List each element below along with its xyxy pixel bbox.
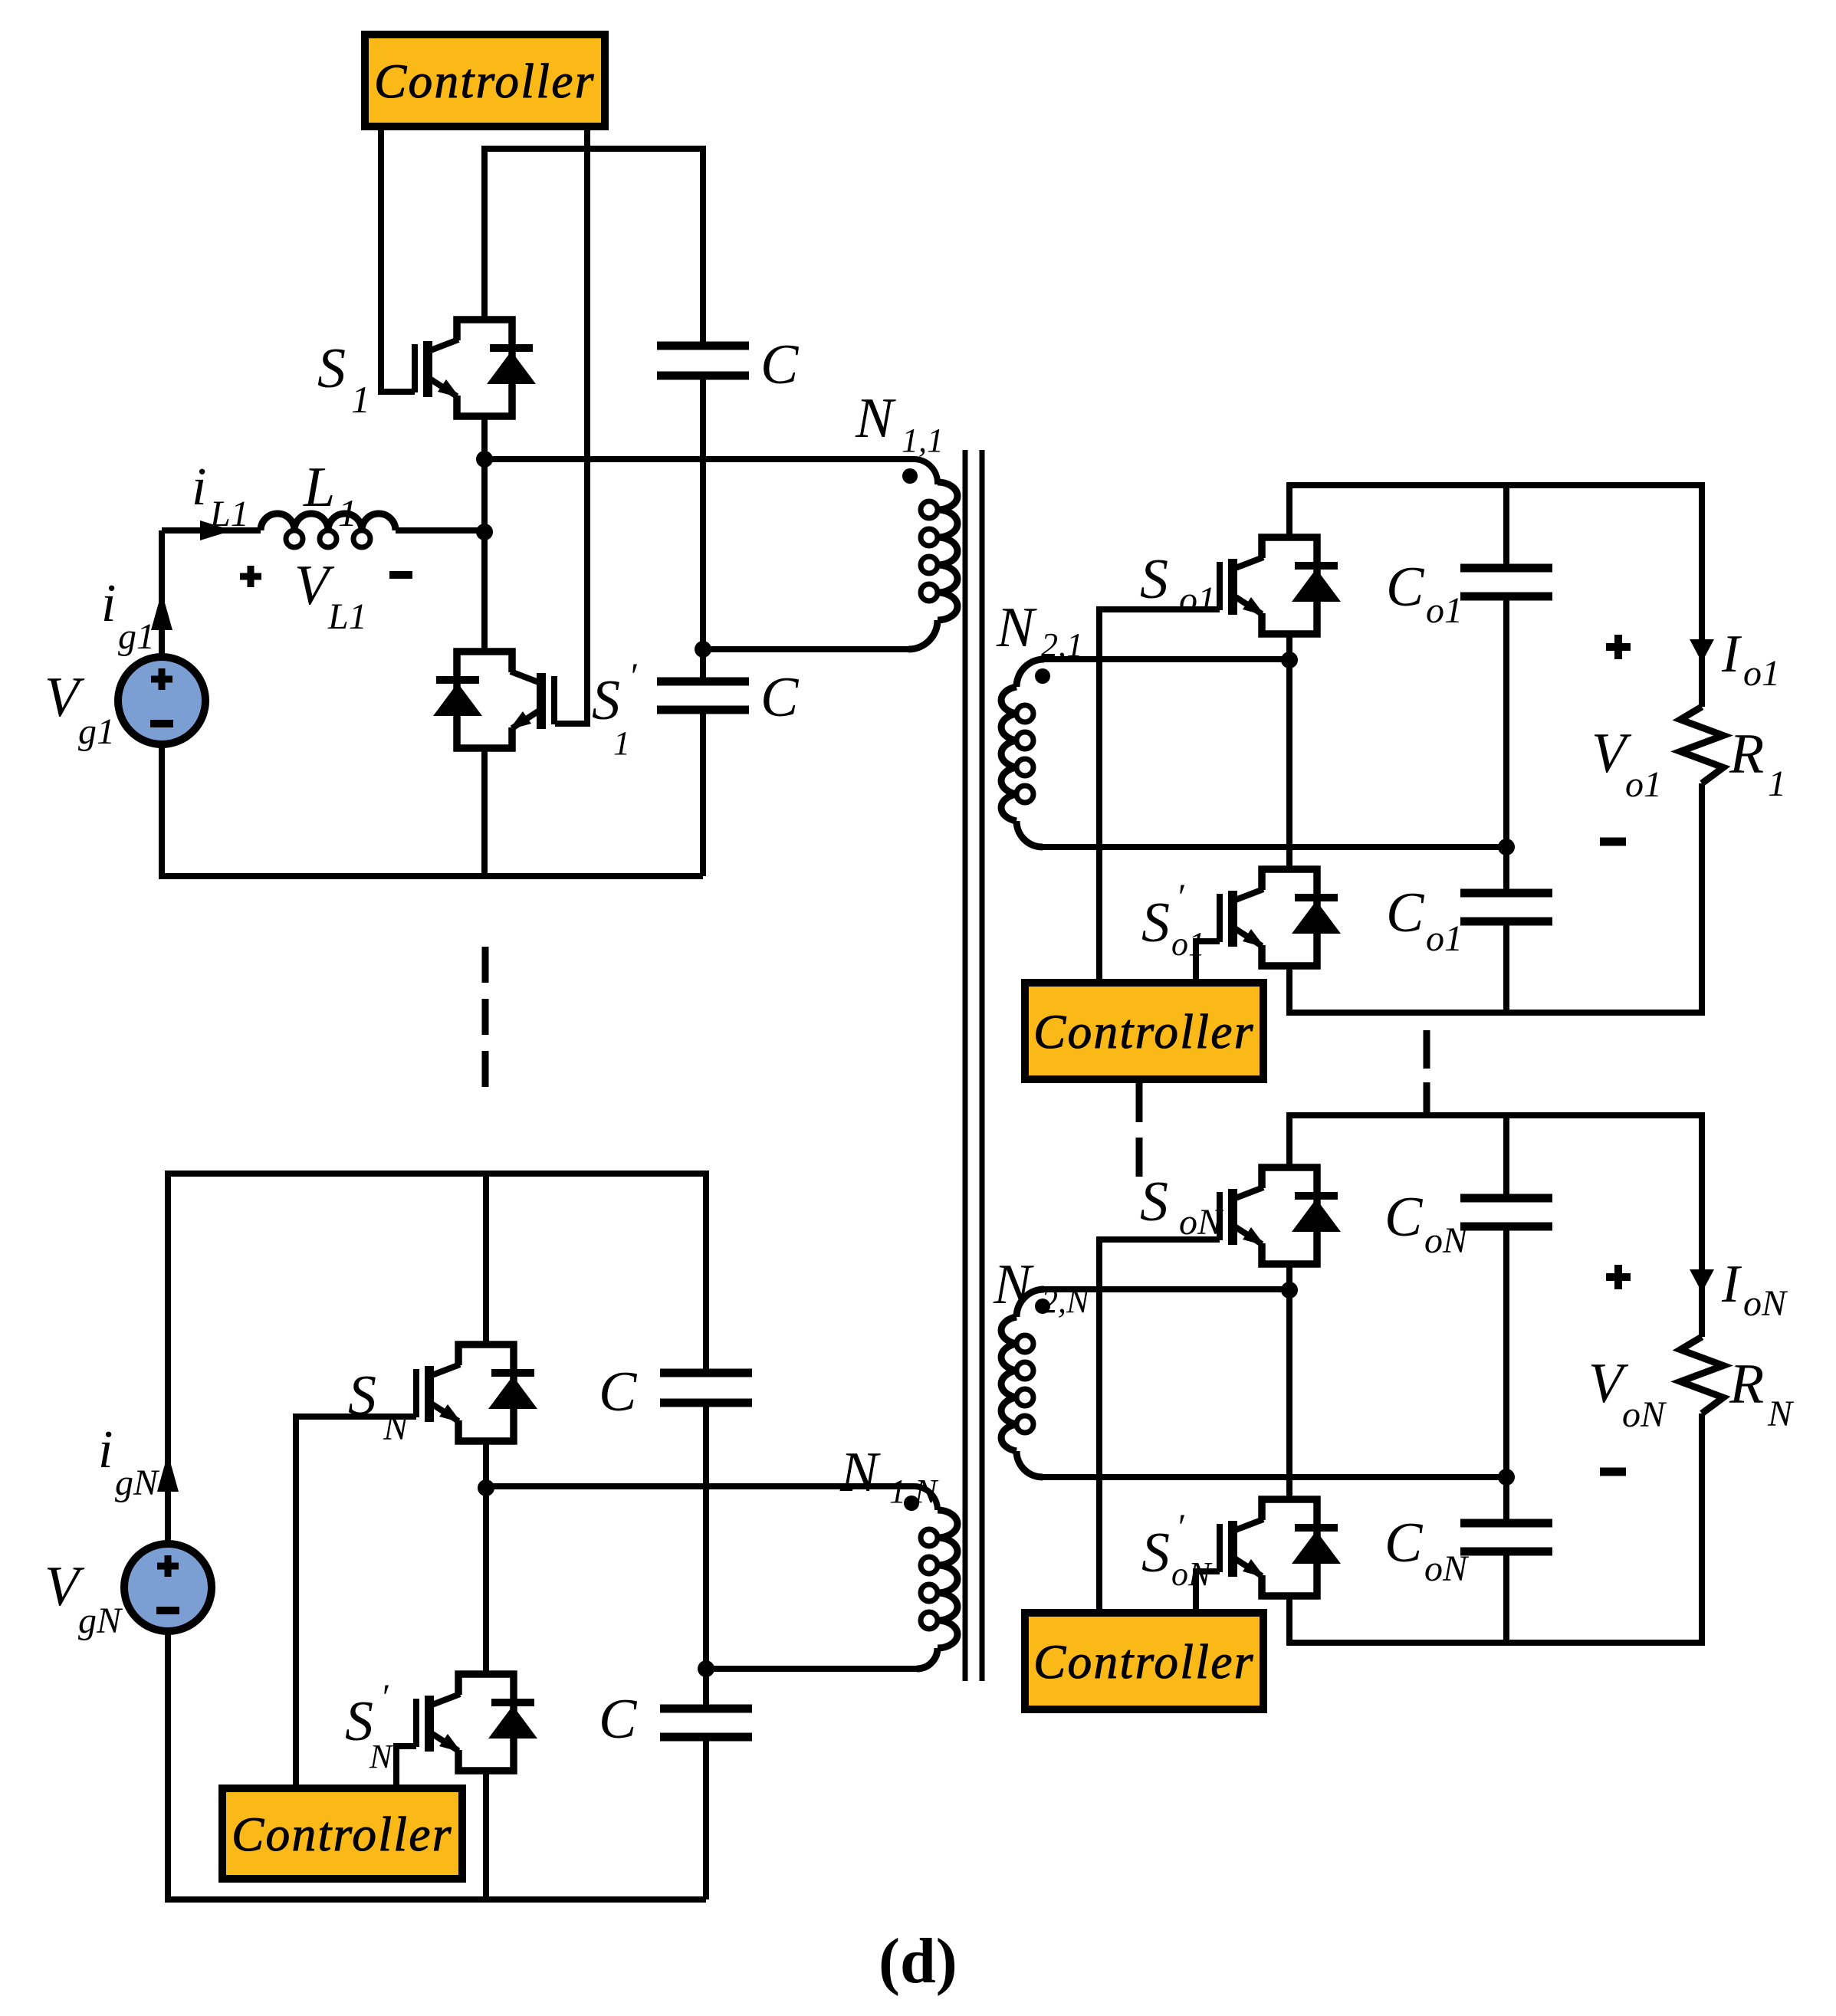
wire gate SoN to controller — [1099, 1239, 1220, 1613]
node SN emitter junction — [478, 1479, 494, 1496]
svg-text:N: N — [383, 1407, 410, 1448]
dashed continuation mid — [1136, 1083, 1143, 1122]
wire L1 right lead — [396, 527, 484, 534]
transistor So1 — [1220, 537, 1341, 634]
capacitor CoN upper — [1460, 1194, 1552, 1203]
svg-text:Controller: Controller — [1033, 1005, 1255, 1059]
svg-text:gN: gN — [115, 1463, 160, 1503]
capacitor Co1 lower — [1460, 889, 1552, 898]
svg-text:′: ′ — [380, 1677, 389, 1718]
svg-text:o1: o1 — [1743, 653, 1780, 694]
winding N1,N dot — [904, 1496, 919, 1511]
source Vg1 — [118, 657, 205, 744]
capacitor C lower — [657, 678, 749, 686]
wire CoN lower to bottom rail — [1503, 1551, 1509, 1643]
node L1 junction — [476, 524, 493, 540]
wire gate S'1 from controller — [555, 126, 587, 724]
svg-text:oN: oN — [1743, 1283, 1788, 1324]
svg-text:N: N — [996, 596, 1037, 659]
wire Vg1 bottom to rail — [162, 744, 703, 876]
svg-text:1: 1 — [351, 378, 370, 421]
svg-text:S: S — [1140, 1171, 1168, 1233]
svg-text:g1: g1 — [118, 616, 155, 657]
wire SN collector — [483, 1174, 489, 1345]
node mid rail junction N — [1498, 1469, 1515, 1486]
svg-text:C: C — [1386, 556, 1425, 619]
svg-text:N: N — [369, 1738, 394, 1775]
dashed continuation left — [482, 947, 489, 983]
wire node to winding N1,1 bottom — [703, 646, 910, 652]
controller box (mid-right) — [1025, 983, 1263, 1079]
svg-text:o1: o1 — [1426, 918, 1463, 959]
winding N2,1 — [1017, 659, 1044, 687]
controller box (bottom-left) — [222, 1788, 462, 1879]
svg-text:1,1: 1,1 — [902, 422, 944, 459]
node S1 emitter junction — [476, 451, 493, 468]
svg-text:1: 1 — [1768, 763, 1786, 804]
wire mid rail output 1 — [1043, 844, 1506, 850]
svg-text:o1: o1 — [1426, 590, 1463, 631]
svg-text:oN: oN — [1622, 1394, 1667, 1435]
wire node to winding N1,1 top — [484, 459, 938, 484]
wire gate So1 to controller — [1099, 609, 1220, 983]
svg-text:I: I — [1721, 1255, 1742, 1314]
capacitor C upper — [657, 342, 749, 350]
wire gate S1 from controller — [381, 126, 415, 392]
transistor S'N — [416, 1674, 537, 1771]
dashed continuation right — [1424, 1030, 1430, 1069]
capacitor C input N upper — [660, 1369, 752, 1377]
wire S'N emitter to bottom rail — [483, 1771, 489, 1899]
wire winding N2,1 top to node — [1044, 656, 1289, 662]
node cap junction — [695, 641, 711, 658]
wire node to winding N1,N bottom — [706, 1666, 917, 1672]
wire C upper to node — [703, 1403, 709, 1709]
wire CoN to mid node — [1503, 1226, 1509, 1523]
svg-text:′: ′ — [629, 656, 638, 697]
svg-text:N: N — [839, 1441, 881, 1504]
transistor SoN — [1220, 1167, 1341, 1264]
capacitor C input N lower — [660, 1705, 752, 1713]
svg-text:1: 1 — [613, 724, 630, 762]
svg-text:′: ′ — [1176, 1507, 1185, 1548]
wire Vg1 to L1 corner — [159, 530, 165, 657]
wire winding N2,N top to node — [1044, 1286, 1289, 1292]
wire bottom rail output 1 — [1289, 783, 1702, 1013]
arrow Io1 — [1690, 639, 1714, 662]
svg-text:S: S — [1141, 1522, 1170, 1584]
svg-text:N: N — [993, 1253, 1034, 1316]
label + Vo1 - — [1606, 643, 1631, 651]
wire L1 left lead — [162, 527, 261, 534]
svg-text:oN: oN — [1424, 1548, 1470, 1589]
wire SN node down to S'N — [483, 1488, 489, 1674]
wire S1 emitter to node — [481, 416, 488, 459]
svg-text:L1: L1 — [209, 494, 249, 534]
svg-text:i: i — [101, 574, 116, 633]
wire SoN emitter to S'oN — [1286, 1263, 1292, 1499]
winding N2,N — [1017, 1289, 1044, 1317]
svg-text:C: C — [760, 666, 800, 729]
node SoN emitter junction — [1281, 1282, 1298, 1299]
wire top rail output 1 — [1289, 485, 1702, 707]
svg-text:(d): (d) — [879, 1926, 957, 1997]
node So1 emitter junction — [1281, 652, 1298, 668]
svg-text:C: C — [1384, 1512, 1424, 1574]
transistor S'1 — [433, 652, 554, 748]
wire C lower to bottom rail — [703, 1737, 709, 1899]
node C junction N — [698, 1660, 714, 1677]
wire top rail S1 collector to cap C — [484, 149, 703, 346]
winding N2,N dot — [1035, 1299, 1050, 1314]
winding N2,1 dot — [1035, 668, 1050, 684]
wire gate S'N to controller — [396, 1746, 416, 1788]
label + VL1 - — [240, 573, 261, 580]
transistor S'o1 — [1220, 869, 1341, 966]
svg-text:C: C — [1386, 882, 1425, 944]
svg-text:o1: o1 — [1625, 764, 1662, 805]
svg-text:S: S — [317, 337, 346, 400]
svg-text:1: 1 — [338, 491, 357, 534]
svg-text:gN: gN — [78, 1601, 123, 1641]
svg-text:N: N — [855, 387, 896, 450]
wire cap C lower to bottom rail — [700, 710, 706, 876]
source VgN — [124, 1544, 212, 1631]
wire cap C to node — [700, 376, 706, 681]
winding N1,N — [486, 1486, 938, 1510]
transistor S'oN — [1220, 1499, 1341, 1596]
capacitor CoN lower — [1460, 1519, 1552, 1528]
wire Co1 to mid node — [1503, 596, 1509, 893]
label + VoN - — [1606, 1273, 1631, 1281]
svg-text:N: N — [1767, 1394, 1795, 1434]
svg-text:o1: o1 — [1179, 580, 1216, 620]
resistor R1 — [1680, 707, 1723, 783]
wire VgN bottom to rail — [168, 1631, 706, 1899]
controller box (top-left) — [365, 34, 605, 126]
svg-text:i: i — [192, 458, 206, 517]
wire gate SN to controller — [296, 1417, 416, 1788]
wire gate S'oN to controller — [1196, 1571, 1220, 1613]
wire top rail N input — [168, 1174, 706, 1544]
winding N1,1 dot — [902, 468, 918, 484]
wire bottom rail output N — [1289, 1413, 1702, 1643]
wire S'1 emitter to bottom rail — [481, 748, 488, 876]
transistor SN — [416, 1345, 537, 1441]
svg-text:C: C — [599, 1361, 638, 1423]
arrow iL1 current — [200, 520, 232, 540]
svg-text:1,N: 1,N — [889, 1473, 939, 1510]
svg-text:L: L — [303, 456, 335, 519]
wire mid rail output N — [1043, 1474, 1506, 1480]
capacitor Co1 upper lead — [1503, 485, 1509, 568]
wire Co1 lower to bottom rail — [1503, 921, 1509, 1013]
svg-text:S: S — [592, 669, 620, 732]
svg-text:S: S — [1140, 548, 1168, 611]
svg-text:C: C — [599, 1688, 638, 1751]
arrow IoN — [1690, 1269, 1714, 1292]
resistor RN — [1680, 1337, 1723, 1413]
svg-text:S: S — [1141, 891, 1170, 954]
svg-text:Controller: Controller — [232, 1808, 453, 1861]
svg-text:R: R — [1729, 723, 1764, 786]
wire So1 emitter to S'o1 — [1286, 633, 1292, 869]
svg-text:Controller: Controller — [374, 54, 596, 108]
wire vertical to L1 node — [481, 459, 488, 652]
svg-text:R: R — [1729, 1353, 1764, 1416]
capacitor Co1 upper — [1460, 564, 1552, 573]
transistor S1 — [415, 320, 536, 416]
arrow ig1 current — [151, 592, 172, 630]
svg-text:L1: L1 — [327, 596, 367, 637]
svg-text:i: i — [98, 1420, 113, 1479]
controller box (bottom-right) — [1025, 1613, 1263, 1709]
arrow igN current — [157, 1453, 179, 1492]
svg-text:C: C — [1384, 1186, 1424, 1249]
capacitor CoN upper lead — [1503, 1115, 1509, 1198]
wire top rail output N — [1289, 1115, 1702, 1337]
svg-text:g1: g1 — [78, 711, 115, 752]
svg-text:Controller: Controller — [1033, 1635, 1255, 1689]
svg-text:I: I — [1721, 625, 1742, 684]
inductor L1 — [261, 514, 396, 530]
svg-text:C: C — [760, 333, 800, 396]
wire SN emitter to node — [483, 1441, 489, 1499]
wire gate S'o1 to controller — [1196, 941, 1220, 983]
svg-text:′: ′ — [1176, 877, 1185, 918]
winding N1,1 — [938, 482, 957, 620]
transformer core — [963, 450, 968, 1681]
node mid rail junction — [1498, 839, 1515, 855]
svg-text:oN: oN — [1424, 1220, 1470, 1261]
